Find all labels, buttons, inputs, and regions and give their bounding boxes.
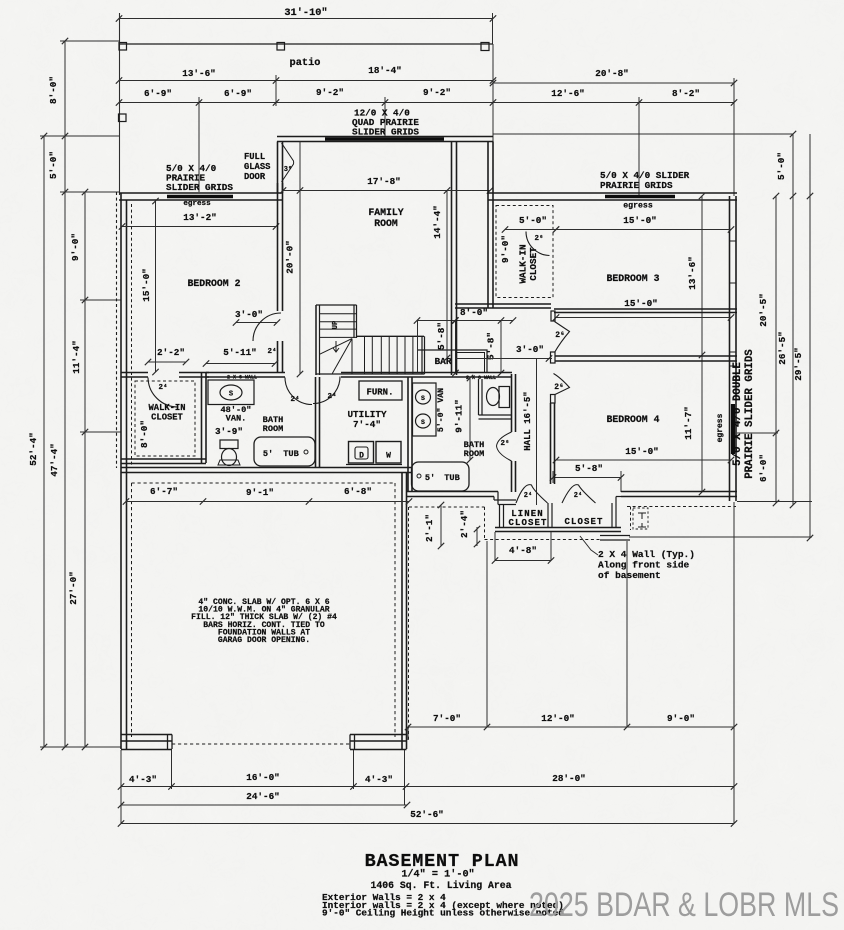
svg-text:16'-0": 16'-0" (246, 772, 279, 783)
svg-text:20'-0": 20'-0" (285, 240, 296, 273)
svg-text:2⁴: 2⁴ (267, 348, 276, 356)
dimension 14-4 family (446, 191, 448, 359)
svg-text:BAR: BAR (434, 356, 451, 367)
svg-text:FURN.: FURN. (366, 388, 393, 398)
svg-text:5'-8": 5'-8" (575, 463, 603, 474)
patio post top-right (481, 43, 489, 51)
garage north wall (121, 467, 412, 469)
svg-text:8'-0": 8'-0" (48, 76, 59, 104)
svg-text:3⁰: 3⁰ (284, 165, 292, 174)
wall bedroom2/family with door (277, 142, 279, 312)
svg-text:TUB: TUB (444, 473, 459, 483)
svg-text:PRAIRIE GRIDS: PRAIRIE GRIDS (600, 180, 673, 191)
extension lines bottom (486, 541, 488, 727)
hall east wall (550, 403, 552, 484)
door wedge bath2 (497, 432, 512, 461)
svg-text:ROOM: ROOM (374, 218, 398, 229)
svg-text:GLASS: GLASS (244, 162, 270, 172)
north wall family room with quad slider (277, 136, 493, 138)
svg-text:9'-0": 9'-0" (500, 235, 511, 263)
walk-in closet2 dashed (496, 206, 553, 298)
svg-text:9'-0": 9'-0" (667, 713, 695, 724)
svg-text:5/0 X 4/0 DOUBLE: 5/0 X 4/0 DOUBLE (732, 362, 744, 466)
svg-text:5'-0": 5'-0" (776, 152, 787, 180)
dimension 2-4 rotated (476, 527, 478, 546)
leader 2x4 wall note (580, 536, 598, 555)
svg-text:3'-9": 3'-9" (215, 426, 243, 437)
family room east wall (451, 142, 453, 376)
svg-text:5'-8": 5'-8" (436, 322, 447, 350)
svg-text:2⁴: 2⁴ (524, 492, 532, 500)
dimension 9-0 11-4 27-0 left inner (84, 192, 86, 747)
svg-text:18'-4": 18'-4" (368, 65, 401, 76)
svg-text:CLOSET: CLOSET (564, 517, 603, 527)
hall top door jamb (551, 311, 555, 321)
svg-text:4'-3": 4'-3" (129, 774, 157, 785)
toilet alcove walls (478, 379, 480, 415)
bath2 east wall / hall west (511, 374, 513, 432)
dimension 15-0 bedroom2 (155, 201, 157, 372)
svg-text:S: S (229, 391, 233, 399)
svg-text:patio: patio (290, 57, 321, 69)
wall bedroom2 south with closet door (121, 372, 148, 374)
svg-text:5'-0" VAN: 5'-0" VAN (436, 388, 446, 432)
svg-text:6'-8": 6'-8" (344, 486, 372, 497)
svg-text:D: D (359, 452, 364, 461)
svg-text:2'-1": 2'-1" (424, 514, 435, 542)
svg-text:15'-0": 15'-0" (623, 215, 656, 226)
tub bath2 (412, 462, 470, 491)
thin line above bedroom3 (493, 133, 793, 135)
svg-text:egress: egress (183, 200, 211, 208)
utility/bath2 north wall 2x6 (341, 372, 512, 374)
svg-text:9'-0": 9'-0" (70, 233, 81, 261)
svg-text:ROOM: ROOM (464, 449, 485, 459)
svg-text:DOOR: DOOR (244, 172, 266, 182)
svg-text:28'-0": 28'-0" (552, 773, 585, 784)
svg-text:2⁶: 2⁶ (554, 383, 564, 392)
svg-text:WALK-IN: WALK-IN (518, 244, 529, 283)
svg-text:8'-0": 8'-0" (139, 420, 150, 448)
svg-text:6'-0": 6'-0" (758, 454, 769, 482)
door wedge bedroom4 (554, 374, 570, 395)
door arc closet2 (526, 232, 550, 256)
dimension 8-0 5-0 47-4 left (64, 41, 66, 747)
svg-text:TUB: TUB (283, 449, 298, 459)
dimension 5-0 26-5 right (792, 134, 794, 505)
svg-text:9'-1": 9'-1" (246, 487, 274, 498)
svg-text:2⁶: 2⁶ (500, 439, 509, 448)
dashed 2x4 wall bottom right with anchors (627, 506, 736, 508)
right extension lines (737, 501, 812, 503)
furnace box (359, 381, 402, 400)
garage dashed slab wall (132, 482, 396, 484)
svg-text:11'-7": 11'-7" (683, 406, 694, 439)
svg-text:WALK-IN: WALK-IN (149, 403, 186, 413)
svg-text:15'-0": 15'-0" (141, 268, 152, 301)
svg-text:9'-2": 9'-2" (423, 87, 451, 98)
patio outline (119, 13, 121, 195)
closet floor wall (495, 527, 621, 529)
svg-text:S: S (421, 419, 425, 426)
svg-text:6'-9": 6'-9" (224, 88, 252, 99)
wall bath1 north 2x6 (206, 372, 285, 374)
svg-text:2⁴: 2⁴ (158, 384, 167, 392)
svg-text:2⁶: 2⁶ (555, 331, 565, 340)
linen closet northwest wall (494, 499, 516, 501)
svg-text:1406 Sq. Ft. Living Area: 1406 Sq. Ft. Living Area (370, 880, 511, 891)
walk-in closet bedroom2 walls (201, 373, 203, 464)
svg-text:14'-4": 14'-4" (432, 205, 443, 238)
svg-text:3'-0": 3'-0" (516, 344, 544, 355)
svg-text:2025 BDAR & LOBR MLS: 2025 BDAR & LOBR MLS (529, 886, 839, 924)
svg-text:SLIDER GRIDS: SLIDER GRIDS (166, 182, 233, 193)
svg-text:UP: UP (332, 321, 340, 329)
garage east wall (401, 473, 403, 750)
svg-text:BEDROOM 4: BEDROOM 4 (607, 414, 660, 425)
door bump closet (562, 485, 596, 503)
garage south wall and door jambs (121, 734, 172, 736)
svg-text:of basement: of basement (598, 570, 661, 581)
svg-text:47'-4": 47'-4" (49, 443, 60, 476)
svg-text:52'-6": 52'-6" (410, 809, 443, 820)
dimension 9-11 bath2 (469, 378, 471, 460)
svg-text:20'-8": 20'-8" (595, 68, 628, 79)
tub bath1 (254, 437, 315, 466)
bar counter (418, 350, 487, 373)
bedroom4 south wall (621, 491, 737, 493)
svg-text:2 X 4 Wall (Typ.): 2 X 4 Wall (Typ.) (598, 549, 695, 560)
svg-text:2⁶: 2⁶ (534, 234, 543, 243)
svg-text:W: W (386, 452, 391, 461)
svg-text:13'-2": 13'-2" (183, 212, 216, 223)
svg-text:15'-0": 15'-0" (624, 298, 657, 309)
svg-text:27'-0": 27'-0" (68, 571, 79, 604)
east exterior wall with egress window (729, 196, 731, 501)
svg-text:29'-5": 29'-5" (793, 347, 804, 380)
svg-text:52'-4": 52'-4" (28, 432, 39, 465)
wall stub right of closets (600, 535, 630, 537)
door arc bedroom2 closet (148, 378, 179, 408)
svg-text:CLOSET: CLOSET (508, 518, 547, 528)
full glass door wedge (282, 143, 294, 182)
svg-text:7'-0": 7'-0" (433, 713, 461, 724)
dimension 52-4 left outer (43, 136, 45, 747)
svg-text:4'-8": 4'-8" (509, 545, 537, 556)
stairs upper run (315, 305, 317, 375)
svg-text:S: S (421, 395, 425, 402)
patio post top-mid (277, 43, 285, 51)
north wall bedroom2 with egress window (119, 192, 283, 194)
svg-text:2'-2": 2'-2" (157, 347, 185, 358)
wall bath1 east (315, 377, 317, 467)
svg-text:12'-6": 12'-6" (551, 88, 584, 99)
svg-text:11'-4": 11'-4" (71, 340, 82, 373)
svg-text:BEDROOM 3: BEDROOM 3 (607, 273, 660, 284)
svg-text:Along front side: Along front side (598, 560, 690, 571)
svg-text:egress: egress (716, 413, 725, 442)
dashed 2x4 wall bottom center (409, 506, 485, 508)
bath2 west wall (407, 377, 409, 492)
dimension 13-6 11-7 rotated (701, 196, 703, 492)
closet2 south wall (455, 303, 551, 305)
svg-text:9'-2": 9'-2" (316, 87, 344, 98)
svg-text:HALL 16'-5": HALL 16'-5" (523, 391, 533, 450)
door arc bedroom2 (253, 313, 281, 341)
tub2 south wall (407, 491, 499, 493)
svg-text:7'-4": 7'-4" (353, 419, 381, 430)
svg-text:6'-9": 6'-9" (144, 88, 172, 99)
washer dryer (349, 442, 374, 464)
hall doors to bath1 and utility (285, 378, 312, 405)
svg-text:5'-0": 5'-0" (519, 215, 547, 226)
svg-text:5': 5' (263, 449, 273, 459)
svg-text:17'-8": 17'-8" (367, 176, 400, 187)
svg-text:2⁴: 2⁴ (327, 393, 336, 401)
svg-text:ROOM: ROOM (263, 424, 284, 434)
svg-text:20'-5": 20'-5" (758, 293, 769, 326)
toilet bath1 (220, 440, 238, 449)
svg-text:GARAG DOOR OPENING.: GARAG DOOR OPENING. (218, 636, 310, 645)
svg-text:8'-2": 8'-2" (672, 88, 700, 99)
svg-text:2⁴: 2⁴ (574, 492, 582, 500)
dimension 29-5 right outer (809, 134, 811, 538)
svg-text:9'-11": 9'-11" (454, 399, 465, 432)
stairs lower run (357, 335, 425, 337)
dimension 2-1 rotated (440, 505, 442, 546)
svg-text:5'-0": 5'-0" (48, 151, 59, 179)
svg-text:6'-7": 6'-7" (150, 486, 178, 497)
svg-text:VAN.: VAN. (226, 414, 247, 424)
patio post top-left (119, 43, 127, 51)
vanity bath2 (413, 383, 437, 436)
svg-text:FULL: FULL (244, 152, 265, 162)
svg-text:31'-10": 31'-10" (284, 7, 327, 19)
wall west of bedroom3 closet (487, 142, 489, 308)
svg-text:egress: egress (623, 202, 653, 211)
svg-text:BEDROOM 2: BEDROOM 2 (188, 278, 241, 289)
closet partition walls (499, 505, 501, 529)
stairs winders (320, 339, 353, 355)
svg-text:2'-4": 2'-4" (459, 510, 470, 538)
dimension 20-0 family (299, 142, 301, 375)
patio post left-side (119, 114, 127, 122)
bedroom4 north wall (555, 355, 737, 357)
svg-text:CLOSET: CLOSET (151, 413, 183, 423)
toilet bath2 (487, 388, 500, 406)
extension lines top (198, 97, 200, 192)
svg-text:4'-3": 4'-3" (365, 774, 393, 785)
svg-text:26'-5": 26'-5" (777, 331, 788, 364)
hall dim line (536, 359, 538, 506)
dimension 20-5 6-0 right (775, 196, 777, 503)
north wall bedroom3 with egress window (488, 192, 737, 194)
svg-text:5'-11": 5'-11" (223, 347, 256, 358)
svg-text:15'-0": 15'-0" (625, 446, 658, 457)
svg-text:12'-0": 12'-0" (541, 713, 574, 724)
svg-text:3'-0": 3'-0" (235, 309, 263, 320)
svg-text:2⁴: 2⁴ (290, 396, 299, 404)
bedroom3 south wall (554, 308, 737, 310)
svg-text:1/4" = 1'-0": 1/4" = 1'-0" (401, 869, 474, 881)
svg-text:13'-6": 13'-6" (687, 256, 698, 289)
door bump linen closet (516, 485, 548, 503)
dimension 5-8 bar west (455, 321, 457, 374)
dimension 5-8 bar east (500, 321, 502, 374)
left extension lines (60, 40, 119, 42)
svg-text:5': 5' (425, 473, 435, 483)
svg-text:PRAIRIE SLIDER GRIDS: PRAIRIE SLIDER GRIDS (744, 349, 756, 479)
door wedge bedroom3 (555, 322, 570, 353)
svg-text:13'-6": 13'-6" (182, 68, 215, 79)
svg-text:FAMILY: FAMILY (368, 207, 403, 218)
svg-text:24'-6": 24'-6" (246, 791, 279, 802)
vanity bath1 (208, 380, 254, 405)
west exterior wall (120, 193, 122, 749)
